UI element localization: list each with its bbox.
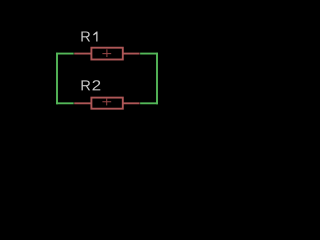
R2 right pin — [123, 102, 140, 104]
R2 left pin — [74, 102, 92, 104]
R1 body box — [91, 48, 122, 60]
wire: top-right horizontal net segment — [140, 53, 158, 55]
wire: bottom-left horizontal net segment — [56, 102, 74, 104]
resistor R1 — [74, 48, 139, 60]
resistor R2 — [74, 98, 139, 109]
wire: bottom-right horizontal net segment — [140, 102, 158, 104]
R1 left pin — [74, 53, 92, 55]
R2 body box — [91, 98, 122, 109]
label R1 — [81, 31, 97, 41]
wire: left vertical net segment — [56, 53, 58, 105]
label R2 — [82, 80, 101, 90]
R1 origin plus marker — [102, 49, 111, 57]
R2 origin plus marker — [102, 99, 111, 106]
wire: right vertical net segment — [156, 53, 158, 105]
R1 right pin — [123, 53, 140, 55]
wire: top-left horizontal net segment — [56, 53, 74, 55]
